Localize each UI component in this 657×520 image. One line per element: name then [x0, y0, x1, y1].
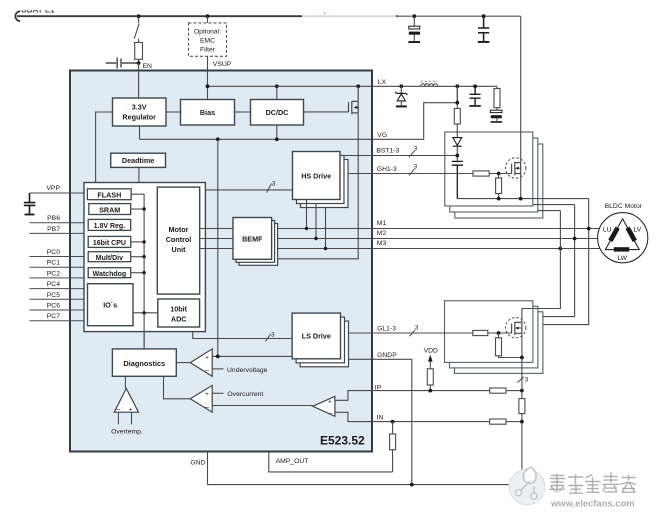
svg-text:BEMF: BEMF	[242, 235, 263, 244]
top-right white watermark wash	[302, 9, 396, 21]
wire internal data bus (over CPU box)	[131, 194, 144, 349]
wire EN into IC to 3.3V regulator	[138, 63, 140, 98]
node undervoltage bus junction	[216, 355, 220, 359]
wire HS Drive echo3 to M3	[325, 208, 327, 249]
wire phase2 vertical	[540, 205, 575, 317]
block HS Drive echo 2	[297, 156, 345, 204]
resistor R_GS (HS)	[498, 174, 500, 179]
svg-text:Watchdog: Watchdog	[93, 271, 127, 278]
VDD arrow	[428, 355, 433, 362]
wire 3.3V regulator left to CPU box	[96, 112, 113, 183]
svg-text:Mult/Div: Mult/Div	[96, 255, 123, 262]
svg-text:ADC: ADC	[171, 315, 187, 324]
supply rail wire VBAT	[17, 15, 398, 17]
capacitor C2 on rail	[478, 16, 489, 41]
wire amp output to overcurrent - input	[212, 405, 313, 407]
bus junction node (Mult/Div)	[142, 255, 145, 258]
block LS Drive	[292, 313, 340, 359]
wire M1 stub from MCU	[200, 228, 233, 230]
wire pin PC7	[30, 320, 85, 322]
resistor R_GL	[473, 330, 488, 335]
capacitor C_BST	[452, 161, 463, 198]
wire GL1-3 from LS Drive	[341, 332, 373, 334]
wire HS source rail	[457, 174, 588, 199]
block HS mosfet module echo 3	[455, 144, 543, 218]
svg-text:LX: LX	[378, 79, 387, 86]
wire bus to LS Drive (x3)	[193, 332, 292, 339]
diode D2	[453, 138, 462, 146]
transistor Q_HS (in dashed circle)	[512, 162, 521, 175]
bus junction node (SRAM)	[142, 207, 145, 210]
wire pin PC1	[30, 266, 85, 268]
ground for D1	[396, 105, 407, 107]
wire Diagnostics to undervoltage comparator	[176, 362, 190, 364]
svg-text:DC/DC: DC/DC	[266, 108, 289, 117]
winding LU (left bar)	[608, 227, 619, 242]
node Q1 drain	[356, 84, 360, 88]
node gate LS	[497, 331, 501, 335]
svg-text:–: –	[205, 367, 209, 374]
svg-text:–: –	[205, 404, 209, 411]
svg-text:FLASH: FLASH	[97, 191, 121, 200]
svg-text:GND: GND	[190, 459, 205, 466]
transistor Q_LS (in dashed circle)	[512, 322, 522, 335]
svg-text:–: –	[328, 410, 332, 417]
resistor R_sense	[521, 391, 523, 399]
svg-text:SRAM: SRAM	[99, 205, 120, 214]
wire M2 stub from MCU	[200, 238, 233, 240]
svg-text:LV: LV	[633, 226, 641, 233]
svg-text:www.elecfans.com: www.elecfans.com	[550, 498, 635, 509]
svg-text:EN: EN	[143, 63, 153, 70]
svg-text:Motor: Motor	[169, 225, 189, 234]
block LS mosfet module	[445, 301, 533, 363]
node HS source/RGS	[497, 197, 501, 201]
block LS Drive echo 3	[300, 321, 348, 367]
capacitor C3	[470, 86, 481, 105]
block DC/DC	[251, 100, 304, 126]
block Watchdog	[88, 268, 131, 278]
node HS->M2	[314, 237, 317, 240]
block 16bit CPU	[88, 236, 131, 247]
svg-text:IO´s: IO´s	[103, 301, 117, 310]
wire amp - input to IN	[335, 412, 372, 421]
wire: rail right corner down to HS mosfet drain	[520, 16, 522, 162]
wire overcurrent output to Diagnostics	[164, 376, 191, 399]
wire GH1-3 external	[372, 173, 473, 175]
ground for C1	[408, 41, 420, 43]
BLDC motor circle	[598, 213, 648, 263]
bus width marker 3 (GH)	[409, 169, 415, 175]
node M1/phase	[587, 227, 591, 231]
wire IO's to 10bit ADC	[133, 312, 158, 314]
svg-text:IN: IN	[377, 415, 384, 422]
svg-text:LW: LW	[617, 255, 627, 262]
capacitor C1 (electrolytic) on rail	[413, 16, 415, 26]
wire DC/DC bottom to VG rail	[276, 124, 278, 139]
transistor Q1 (internal NMOS)	[349, 86, 359, 114]
svg-text:1.8V Reg.: 1.8V Reg.	[94, 223, 126, 230]
node VG/bootstrap	[455, 101, 459, 105]
svg-text:E523.52: E523.52	[320, 434, 365, 448]
block LS mosfet module echo 3	[455, 312, 543, 374]
block Motor Control Unit	[157, 187, 199, 294]
wire SRAM to bus	[131, 208, 144, 210]
wire Mult/Div to bus	[131, 256, 144, 258]
wire phase3 vertical to LS drain	[522, 211, 561, 323]
wire LS source down	[521, 333, 523, 390]
svg-text:Optional:: Optional:	[194, 29, 221, 36]
resistor R_GH	[473, 171, 489, 176]
optional EMC filter (dashed box)	[189, 23, 227, 56]
wire GNDP from LS Drive stack	[349, 358, 373, 360]
wire gate node HS	[489, 173, 511, 175]
svg-text:16bit CPU: 16bit CPU	[93, 240, 126, 247]
wire M3 (MCU to motor)	[200, 248, 601, 250]
svg-text:GNDP: GNDP	[377, 352, 397, 359]
node IP/VDD	[428, 389, 432, 393]
svg-text:VDD: VDD	[424, 347, 438, 354]
op-amp current sense amplifier	[313, 396, 335, 416]
node IN/sense	[520, 420, 524, 424]
motor winding triangle	[605, 219, 639, 250]
svg-text:3: 3	[272, 180, 276, 187]
supply rail wire (right, under watermark)	[396, 15, 521, 17]
wire undervoltage sense bus	[217, 139, 219, 356]
wire AMP_OUT	[269, 452, 393, 472]
wire pin PC6	[30, 309, 85, 311]
op-amp undervoltage comparator	[190, 349, 212, 376]
wire overcurrent + input	[212, 392, 223, 394]
svg-text:GH1-3: GH1-3	[377, 166, 397, 173]
capacitor C_EN	[106, 58, 139, 69]
wire M3 stub from MCU	[200, 248, 233, 250]
wire 16bit CPU to bus	[131, 241, 144, 243]
bootstrap chain: wire from VG node	[456, 86, 458, 108]
node VSUP/LX rail	[206, 84, 210, 88]
svg-text:Unit: Unit	[172, 245, 187, 254]
wire pin PC4	[30, 288, 85, 290]
bus width marker 3 (BST)	[409, 151, 415, 157]
wire Deadtime to CPU box	[138, 167, 140, 182]
wire DC/DC to Q1 gate	[304, 111, 349, 113]
capacitor C4 (electrolytic)	[496, 108, 498, 111]
svg-text:PC7: PC7	[47, 313, 60, 320]
svg-text:Regulator: Regulator	[122, 113, 156, 122]
bus junction node (Watchdog)	[142, 271, 145, 274]
resistor R_BST	[454, 109, 460, 125]
wire VG rail	[140, 126, 373, 139]
node GND/GNDP	[410, 483, 414, 487]
wire undervoltage + input to LS Drive	[212, 355, 292, 357]
block HS Drive	[293, 152, 341, 200]
bus width marker 3 (GL)	[410, 330, 416, 336]
switch S1 (open)	[134, 16, 139, 39]
bus junction node (CPU)	[142, 240, 145, 243]
svg-text:M1: M1	[377, 220, 387, 227]
wire LX external	[372, 85, 497, 87]
wire BST1-3 external	[372, 155, 457, 157]
block HS mosfet module echo 2	[450, 138, 538, 212]
wire undervoltage - input	[212, 368, 223, 370]
wire gate node LS	[488, 332, 512, 334]
svg-text:PC4: PC4	[47, 281, 60, 288]
wire pin PC5	[30, 298, 85, 300]
wire VG external up to LX node	[372, 86, 457, 139]
svg-text:+: +	[205, 391, 209, 398]
wire Watchdog to bus	[131, 272, 144, 274]
block BEMF echo 2	[236, 221, 275, 263]
node LS source/RGS	[520, 356, 524, 360]
node LX/zener	[399, 84, 403, 88]
block SRAM	[89, 204, 131, 215]
overtemp input leads	[118, 412, 131, 424]
wire Mult/Div to bus	[131, 256, 144, 258]
svg-text:HS Drive: HS Drive	[301, 172, 331, 181]
resistor R_IN2	[490, 419, 506, 424]
capacitor C_VPP	[24, 193, 36, 214]
wire internal data bus	[131, 194, 144, 349]
node M2/phase	[573, 237, 577, 241]
watermark hanzi pseudo-glyphs	[550, 472, 637, 494]
block LS Drive echo 2	[296, 317, 344, 363]
wire VSUP (rail through EMC filter into IC to Bias)	[207, 16, 209, 99]
svg-text:+: +	[328, 399, 332, 406]
block Mult/Div	[88, 252, 131, 262]
svg-text:Bias: Bias	[200, 108, 215, 117]
block BEMF	[233, 218, 272, 260]
bus width marker 3 (HS)	[267, 184, 272, 193]
node M3/phase	[559, 247, 563, 251]
svg-text:3: 3	[271, 332, 275, 339]
zener diode D1	[400, 86, 402, 93]
wire M2 (MCU to motor)	[200, 238, 598, 240]
wire GNDP external	[372, 359, 412, 484]
wire IP to phase node	[506, 390, 522, 392]
node DC/DC bottom	[275, 137, 279, 141]
wire pin PC0	[30, 256, 85, 258]
svg-text:VPP: VPP	[46, 185, 60, 192]
svg-text:3: 3	[415, 325, 419, 332]
node HS source/Q	[519, 197, 523, 201]
svg-text:Filter: Filter	[200, 47, 216, 54]
wire phase1 vertical (HS to LS stack)	[543, 199, 589, 325]
wire HS drain inside module	[520, 132, 522, 163]
wire 16bit CPU to bus	[131, 241, 144, 243]
svg-text:PC6: PC6	[47, 303, 60, 310]
winding LW (bottom bar)	[614, 247, 629, 251]
wire BST1-3 from HS Drive	[340, 155, 372, 157]
block BEMF echo 3	[239, 224, 278, 266]
node LX/C3	[473, 84, 477, 88]
ground for C3	[469, 105, 480, 107]
svg-text:+: +	[205, 354, 209, 361]
op-amp overcurrent comparator	[190, 385, 212, 412]
wire Watchdog to bus	[131, 272, 144, 274]
node: rail to C1	[412, 14, 416, 18]
svg-text:M3: M3	[377, 240, 387, 247]
block Deadtime	[111, 153, 166, 167]
svg-text:3.3V: 3.3V	[132, 103, 147, 112]
block Diagnostics	[112, 349, 176, 376]
node IN/R	[391, 420, 395, 424]
wire IP external	[372, 390, 490, 392]
svg-text:–: –	[117, 406, 121, 413]
wire GL1-3 external	[372, 332, 473, 334]
wire LX rail (VSUP node to IC edge)	[208, 85, 373, 87]
wire HS Drive to M1	[306, 200, 308, 229]
winding LV (right bar)	[625, 227, 636, 242]
wire Bias to DC/DC	[235, 111, 251, 113]
node HS->M1	[305, 227, 308, 230]
node gate HS	[497, 172, 501, 176]
svg-text:+: +	[129, 406, 133, 413]
svg-text:PB6: PB6	[47, 215, 60, 222]
ground for C4	[491, 121, 503, 123]
svg-text:PC0: PC0	[47, 249, 60, 256]
svg-text:GL1-3: GL1-3	[377, 326, 396, 333]
ground for C2	[478, 41, 490, 43]
node: rail to switch	[137, 14, 141, 18]
watermark logo icon	[516, 467, 537, 499]
svg-text:LU: LU	[603, 226, 612, 233]
bus junction node (ADC)	[142, 311, 145, 314]
resistor R_GS (LS)	[498, 333, 500, 338]
node: rail to C2	[482, 14, 486, 18]
svg-text:BLDC Motor: BLDC Motor	[605, 203, 643, 210]
wire bus to HS Drive (x3)	[205, 189, 292, 191]
svg-text:PB7: PB7	[47, 226, 60, 233]
watermark circle	[509, 469, 546, 506]
node: rail to EMC filter	[206, 14, 210, 18]
svg-text:AMP_OUT: AMP_OUT	[276, 458, 309, 465]
node HS->M3	[324, 247, 327, 250]
wire IN external	[372, 421, 490, 423]
op-amp overtemp comparator	[114, 388, 138, 412]
wire M1 (MCU to motor)	[200, 228, 600, 230]
wire SRAM to bus	[131, 208, 144, 210]
svg-text:3: 3	[525, 376, 529, 383]
wire HS source phase echo2	[465, 204, 575, 206]
node BST	[455, 154, 459, 158]
svg-text:Control: Control	[166, 235, 192, 244]
resistor R_LX	[496, 86, 498, 88]
node EN	[137, 61, 141, 65]
block 10bit ADC	[158, 299, 200, 327]
wire GND	[208, 452, 522, 485]
svg-text:3: 3	[414, 164, 418, 171]
resistor R_AMP	[392, 422, 394, 434]
block FLASH	[87, 189, 131, 200]
svg-text:VSUP: VSUP	[213, 61, 232, 68]
inductor L1	[421, 84, 438, 87]
resistor R_VDD	[427, 369, 433, 385]
wire IO's to 10bit ADC	[133, 312, 158, 314]
block HS Drive echo 3	[301, 160, 349, 208]
svg-text:Diagnostics: Diagnostics	[123, 359, 165, 368]
resistor R_IP	[490, 388, 506, 393]
node UV bus/VG rail	[216, 137, 220, 141]
svg-text:Undervoltage: Undervoltage	[227, 367, 268, 374]
node IP/LS source	[520, 389, 524, 393]
block HS mosfet module	[445, 132, 533, 206]
svg-text:PC1: PC1	[47, 260, 60, 267]
block LS mosfet module echo 2	[450, 306, 538, 368]
wire HS source phase echo3	[470, 210, 560, 212]
wire Q1 source down to BEMF stack	[272, 113, 359, 259]
svg-text:LS Drive: LS Drive	[302, 332, 331, 341]
resistor R_EN	[138, 39, 140, 43]
block Bias	[181, 100, 235, 126]
block 1.8V Reg.	[88, 219, 131, 230]
IC E523.52 body	[70, 71, 372, 452]
wire amp + input to IP	[335, 391, 372, 401]
svg-text:Deadtime: Deadtime	[122, 156, 154, 165]
CPU subsystem box	[84, 183, 205, 332]
svg-text:PC2: PC2	[47, 270, 60, 277]
wire pin PB7	[30, 232, 85, 234]
svg-text:EMC: EMC	[200, 37, 215, 44]
wire HS Drive echo2 to M2	[315, 204, 317, 239]
svg-text:M2: M2	[377, 230, 387, 237]
block IO's	[88, 284, 134, 326]
svg-text:10bit: 10bit	[170, 305, 187, 314]
supply connector (left arc)	[15, 11, 20, 21]
svg-text:3: 3	[414, 145, 418, 152]
svg-text:BST1-3: BST1-3	[376, 147, 399, 154]
wire pin PC2	[30, 277, 85, 279]
wire resistor to EN node	[138, 59, 140, 63]
node DC/DC top	[275, 84, 279, 88]
wire DC/DC top to LX rail	[276, 86, 278, 99]
wire pin VPP	[30, 192, 85, 194]
svg-text:PC5: PC5	[47, 292, 60, 299]
wire Diagnostics to overtemp comparator	[124, 376, 126, 388]
svg-text:Overtemp.: Overtemp.	[111, 429, 143, 436]
wire regulator to Bias	[166, 111, 181, 113]
svg-text:VG: VG	[377, 132, 387, 139]
wire IN to sense node	[506, 421, 522, 423]
svg-text:Overcurrent: Overcurrent	[227, 391, 263, 398]
block 3.3V Regulator	[113, 98, 167, 126]
wire pin PB6	[30, 222, 85, 224]
bus width marker 3 (LS source)	[517, 377, 524, 383]
wire GH1-3 from HS Drive	[340, 173, 372, 175]
node LX/bootstrap	[455, 84, 459, 88]
bus width marker 3 (LS)	[265, 334, 270, 341]
